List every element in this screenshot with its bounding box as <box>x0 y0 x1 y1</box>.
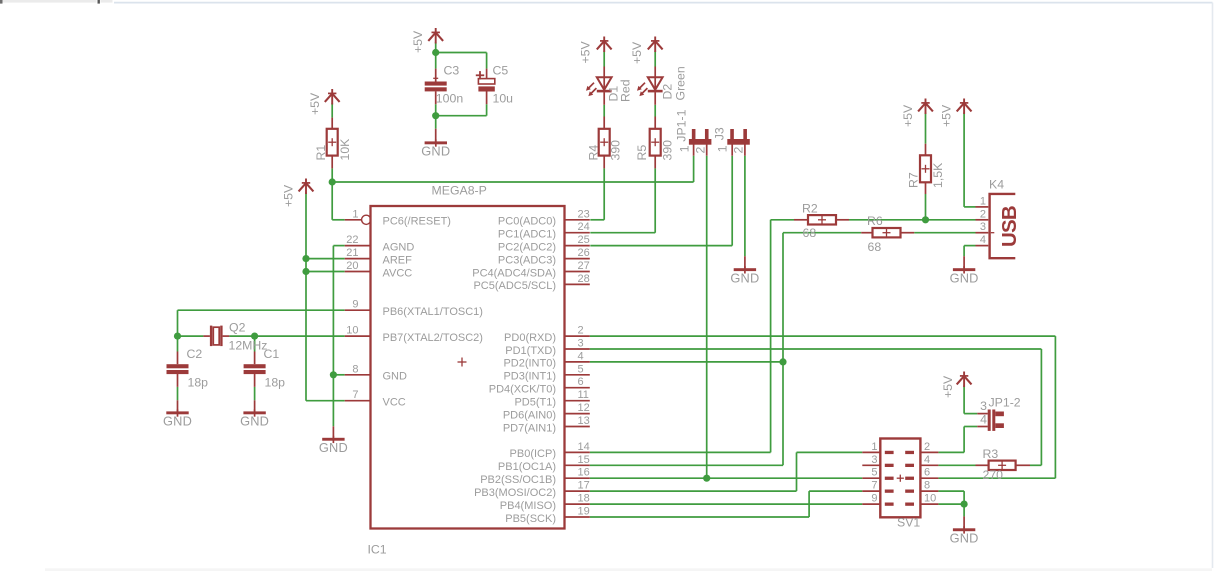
svg-text:9: 9 <box>871 493 877 505</box>
svg-text:R5: R5 <box>635 145 649 161</box>
svg-text:PD3(INT1): PD3(INT1) <box>503 371 556 383</box>
svg-text:+5V: +5V <box>630 41 644 64</box>
svg-text:+5V: +5V <box>579 40 593 63</box>
svg-text:2: 2 <box>578 325 584 337</box>
svg-text:1: 1 <box>980 195 986 207</box>
svg-text:GND: GND <box>730 271 759 286</box>
svg-text:C5: C5 <box>493 64 509 78</box>
svg-text:Red: Red <box>619 79 633 102</box>
svg-text:C2: C2 <box>187 347 203 361</box>
svg-text:10: 10 <box>346 325 358 337</box>
svg-text:PC5(ADC5/SCL): PC5(ADC5/SCL) <box>473 280 556 292</box>
svg-text:14: 14 <box>578 441 590 453</box>
svg-text:68: 68 <box>868 240 882 254</box>
svg-text:PC2(ADC2): PC2(ADC2) <box>498 241 556 253</box>
svg-text:PC0(ADC0): PC0(ADC0) <box>498 216 556 228</box>
svg-text:8: 8 <box>352 363 358 375</box>
svg-text:PC3(ADC3): PC3(ADC3) <box>498 254 556 266</box>
svg-text:2: 2 <box>694 147 708 154</box>
svg-text:PD2(INT0): PD2(INT0) <box>503 358 556 370</box>
svg-text:PD1(TXD): PD1(TXD) <box>505 345 556 357</box>
svg-text:100n: 100n <box>436 91 464 105</box>
svg-text:10K: 10K <box>338 138 352 161</box>
svg-text:5: 5 <box>871 467 877 479</box>
svg-text:R3: R3 <box>983 447 999 461</box>
svg-text:23: 23 <box>578 208 590 220</box>
svg-text:7: 7 <box>871 480 877 492</box>
svg-text:22: 22 <box>346 234 358 246</box>
svg-text:12MHz: 12MHz <box>229 339 268 353</box>
svg-text:AGND: AGND <box>383 241 415 253</box>
svg-text:4: 4 <box>578 350 584 362</box>
svg-text:1: 1 <box>871 441 877 453</box>
svg-text:PB4(MISO): PB4(MISO) <box>500 500 556 512</box>
svg-text:25: 25 <box>578 234 590 246</box>
svg-text:GND: GND <box>163 414 192 429</box>
svg-text:18p: 18p <box>265 376 286 390</box>
svg-text:+5V: +5V <box>308 92 322 115</box>
svg-text:GND: GND <box>383 371 408 383</box>
svg-text:PD6(AIN0): PD6(AIN0) <box>503 409 556 421</box>
svg-text:JP1-2: JP1-2 <box>989 396 1021 410</box>
svg-text:AREF: AREF <box>383 254 413 266</box>
svg-text:PB5(SCK): PB5(SCK) <box>505 513 556 525</box>
svg-text:26: 26 <box>578 247 590 259</box>
svg-text:2: 2 <box>980 208 986 220</box>
svg-text:1: 1 <box>677 145 691 152</box>
svg-text:IC1: IC1 <box>368 543 387 557</box>
svg-text:19: 19 <box>578 506 590 518</box>
svg-text:Q2: Q2 <box>229 321 246 335</box>
svg-text:5: 5 <box>578 363 584 375</box>
svg-text:R4: R4 <box>587 145 601 161</box>
svg-text:4: 4 <box>980 234 986 246</box>
svg-text:12: 12 <box>578 402 590 414</box>
svg-text:3: 3 <box>871 454 877 466</box>
svg-text:7: 7 <box>352 389 358 401</box>
svg-text:18p: 18p <box>188 376 209 390</box>
svg-text:16: 16 <box>578 467 590 479</box>
svg-text:+5V: +5V <box>940 104 954 127</box>
svg-text:+5V: +5V <box>411 30 425 53</box>
svg-text:3: 3 <box>980 221 986 233</box>
svg-text:17: 17 <box>578 480 590 492</box>
svg-text:27: 27 <box>578 260 590 272</box>
svg-text:390: 390 <box>661 140 675 161</box>
svg-text:270: 270 <box>983 468 1004 482</box>
svg-text:PC6(/RESET): PC6(/RESET) <box>383 216 451 228</box>
svg-text:Green: Green <box>674 66 688 100</box>
svg-text:68: 68 <box>803 226 817 240</box>
svg-text:J3: J3 <box>712 127 726 140</box>
svg-text:GND: GND <box>421 144 450 159</box>
svg-text:8: 8 <box>924 480 930 492</box>
svg-text:28: 28 <box>578 273 590 285</box>
svg-text:15: 15 <box>578 454 590 466</box>
svg-text:10: 10 <box>924 493 936 505</box>
svg-text:R2: R2 <box>802 202 818 216</box>
svg-text:4: 4 <box>980 412 987 426</box>
svg-text:AVCC: AVCC <box>383 267 413 279</box>
svg-text:PC4(ADC4/SDA): PC4(ADC4/SDA) <box>472 267 556 279</box>
svg-text:1: 1 <box>352 208 358 220</box>
svg-text:1: 1 <box>716 145 730 152</box>
svg-text:6: 6 <box>578 376 584 388</box>
svg-text:PD7(AIN1): PD7(AIN1) <box>503 422 556 434</box>
svg-text:20: 20 <box>346 260 358 272</box>
svg-text:GND: GND <box>240 414 269 429</box>
svg-text:+5V: +5V <box>282 184 296 207</box>
svg-text:1,5K: 1,5K <box>931 162 945 188</box>
svg-text:K4: K4 <box>989 178 1004 192</box>
svg-text:SV1: SV1 <box>897 516 920 530</box>
svg-text:21: 21 <box>346 247 358 259</box>
svg-text:24: 24 <box>578 221 590 233</box>
svg-text:PB6(XTAL1/TOSC1): PB6(XTAL1/TOSC1) <box>383 306 483 318</box>
svg-text:3: 3 <box>578 338 584 350</box>
svg-text:+5V: +5V <box>901 104 915 127</box>
svg-text:9: 9 <box>352 299 358 311</box>
svg-text:R6: R6 <box>867 214 883 228</box>
svg-text:R7: R7 <box>907 172 921 188</box>
svg-text:C3: C3 <box>444 64 460 78</box>
svg-text:4: 4 <box>924 454 930 466</box>
svg-text:3: 3 <box>980 399 987 413</box>
svg-text:USB: USB <box>998 206 1021 247</box>
svg-text:VCC: VCC <box>383 397 406 409</box>
svg-text:D2: D2 <box>661 84 675 100</box>
svg-text:PB2(SS/OC1B): PB2(SS/OC1B) <box>480 474 556 486</box>
svg-text:R1: R1 <box>314 145 328 161</box>
svg-text:GND: GND <box>319 440 348 455</box>
svg-text:18: 18 <box>578 493 590 505</box>
svg-text:PC1(ADC1): PC1(ADC1) <box>498 229 556 241</box>
svg-text:JP1-1: JP1-1 <box>674 109 688 141</box>
svg-text:MEGA8-P: MEGA8-P <box>432 184 487 198</box>
svg-text:GND: GND <box>950 271 979 286</box>
svg-text:13: 13 <box>578 415 590 427</box>
svg-text:6: 6 <box>924 467 930 479</box>
svg-text:PB7(XTAL2/TOSC2): PB7(XTAL2/TOSC2) <box>383 332 483 344</box>
svg-text:11: 11 <box>578 389 589 401</box>
svg-text:390: 390 <box>609 140 623 161</box>
svg-text:PB3(MOSI/OC2): PB3(MOSI/OC2) <box>474 487 556 499</box>
svg-text:10u: 10u <box>493 91 514 105</box>
svg-text:PB1(OC1A): PB1(OC1A) <box>498 461 556 473</box>
svg-text:2: 2 <box>732 147 746 154</box>
svg-text:PD4(XCK/T0): PD4(XCK/T0) <box>489 384 556 396</box>
svg-text:2: 2 <box>924 441 930 453</box>
svg-text:PB0(ICP): PB0(ICP) <box>510 448 556 460</box>
svg-text:+5V: +5V <box>941 375 955 398</box>
svg-text:PD5(T1): PD5(T1) <box>514 397 556 409</box>
svg-text:PD0(RXD): PD0(RXD) <box>504 332 556 344</box>
svg-text:GND: GND <box>950 531 979 546</box>
